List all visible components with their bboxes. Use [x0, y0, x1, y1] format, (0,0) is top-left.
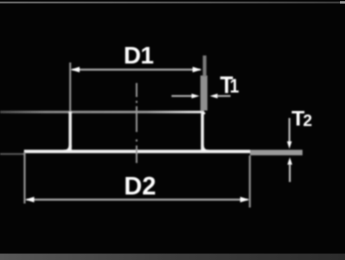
flange faint continuation to left edge: [0, 153, 25, 155]
flange top surface line: [24, 150, 250, 153]
D2 dimension line: [27, 199, 249, 201]
centerline dash 1: [136, 83, 138, 97]
right wall of hub: [202, 112, 204, 150]
svg-text:D1: D1: [124, 43, 154, 70]
bottom border band: [0, 254, 345, 260]
T1 arrow right stem: [217, 95, 231, 97]
centerline dash 3: [136, 146, 138, 164]
D2 extension line right: [249, 156, 251, 208]
flange section band (T2 reference): [250, 150, 303, 156]
D2 arrow right: [240, 197, 249, 203]
hub top surface line: [0, 111, 204, 113]
T2 up arrow stem: [289, 164, 291, 182]
centerline dash 2: [136, 106, 138, 132]
top border line: [0, 2, 345, 4]
T1 arrow left stem: [172, 95, 195, 97]
T2 down arrow stem: [288, 118, 290, 144]
svg-text:2: 2: [303, 112, 312, 130]
T2 up arrow head: [287, 157, 292, 164]
centerline dot 1: [136, 101, 138, 103]
right wall base fillet: [202, 146, 209, 152]
D1 arrow left: [71, 67, 80, 73]
D1 extension line left: [69, 63, 71, 112]
T1 wall section bar: [200, 76, 207, 111]
D1 dimension line: [72, 69, 201, 71]
D2 extension line left: [24, 152, 26, 204]
T1 wall extension line upper: [203, 56, 207, 77]
D2 arrow left: [25, 197, 34, 203]
T2 down arrow head: [287, 141, 292, 148]
top-right corner glint: [340, 1, 345, 3]
left wall of hub: [69, 112, 72, 151]
left wall base fillet: [64, 146, 71, 152]
T1 arrow right head: [210, 94, 218, 99]
centerline dot 2: [136, 139, 138, 141]
svg-text:D2: D2: [124, 173, 156, 201]
T1 arrow left head: [192, 94, 200, 99]
svg-text:1: 1: [230, 75, 239, 96]
D1 arrow right: [193, 67, 202, 73]
